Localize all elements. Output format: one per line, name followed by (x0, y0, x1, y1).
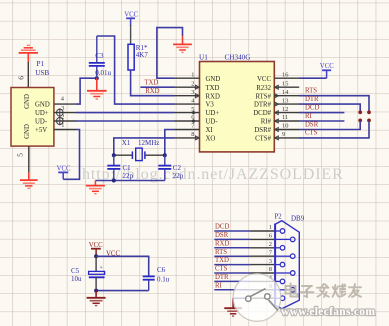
svg-text:TXD: TXD (144, 80, 158, 87)
power port VCC (bottom-left of USB, blue) (57, 166, 71, 180)
P1 inner pin names (24, 94, 50, 139)
glyph zi (301, 286, 314, 297)
glyph dian (286, 284, 298, 297)
glyph fa (317, 284, 329, 297)
resistor R1 (128, 44, 148, 70)
svg-text:DB9: DB9 (291, 214, 305, 222)
ground GND-C5 (dark red earth) (87, 291, 106, 306)
svg-text:CTS: CTS (305, 130, 318, 137)
svg-text:VCC: VCC (89, 242, 103, 249)
wire RI (pin11) (299, 120, 344, 122)
svg-text:R232: R232 (256, 85, 271, 92)
svg-text:VCC: VCC (320, 63, 334, 70)
connector P2 DB9 shell outline (275, 221, 299, 309)
svg-text:1: 1 (269, 224, 272, 231)
svg-text:RXD: RXD (206, 93, 220, 100)
svg-text:3: 3 (269, 258, 272, 265)
svg-text:12MHz: 12MHz (138, 139, 159, 147)
wire USB GND row to C3 node (76, 78, 97, 104)
DB9 pin circles right column (6,7,8,9) (275, 237, 295, 292)
svg-text:CTS#: CTS# (255, 136, 271, 143)
wire +5V to VCC port (63, 130, 79, 180)
glyph you (349, 284, 361, 297)
svg-text:DSR: DSR (215, 232, 229, 239)
svg-text:GND: GND (24, 124, 31, 139)
svg-text:www.elecfans.com: www.elecfans.com (281, 306, 375, 318)
svg-text:RTS#: RTS# (256, 93, 272, 100)
svg-text:RI: RI (215, 282, 223, 289)
svg-text:RXD: RXD (145, 88, 159, 95)
svg-text:RXD: RXD (215, 240, 229, 247)
svg-text:CTS: CTS (215, 266, 228, 273)
U1 left pin numbers (191, 71, 195, 138)
svg-text:GND: GND (206, 76, 221, 83)
svg-text:4K7: 4K7 (136, 51, 149, 59)
wire XO (pin8) to crystal left node (114, 138, 175, 155)
U1 right pin numbers (282, 71, 289, 138)
svg-text:UD-: UD- (206, 119, 219, 126)
svg-text:C2: C2 (173, 164, 182, 172)
wire VCC to R1 (130, 25, 132, 44)
wire CTS (pin9) via outer column (299, 121, 369, 138)
power port VCC (right of U1) (320, 63, 334, 78)
svg-text:UD+: UD+ (35, 110, 49, 117)
junction node crystal-left (112, 153, 116, 157)
svg-text:16: 16 (282, 71, 288, 78)
svg-text:RI#: RI# (261, 119, 272, 126)
svg-text:TXD: TXD (215, 257, 229, 264)
svg-text:3: 3 (191, 89, 194, 96)
capacitor C3 (89, 36, 112, 78)
IC U1 body (200, 62, 275, 152)
svg-text:P1: P1 (37, 60, 45, 68)
capacitor C5 (polarized) (71, 256, 105, 290)
P1 pin numbers 4,3,2,1 (61, 96, 65, 130)
svg-text:TXD: TXD (206, 85, 220, 92)
P1 pin stubs right side (54, 104, 77, 129)
svg-text:12: 12 (282, 106, 288, 113)
svg-text:2: 2 (269, 241, 272, 248)
junction node C5 top (94, 254, 98, 258)
svg-text:0.01u: 0.01u (95, 69, 111, 77)
svg-text:5: 5 (15, 153, 24, 157)
svg-text:XO: XO (206, 136, 216, 143)
junction node C1-rail (112, 179, 116, 183)
svg-text:+5V: +5V (35, 127, 47, 134)
svg-text:UD-: UD- (35, 118, 48, 125)
wires DB9 rows (214, 231, 250, 298)
wire P1 pin5 down (28, 146, 30, 172)
watermark chinese text (drawn glyphs) (286, 284, 362, 298)
svg-text:8: 8 (191, 131, 194, 138)
svg-text:8: 8 (269, 266, 272, 273)
capacitor C1 (107, 155, 133, 180)
P1 pin glyphs on UD wires (57, 109, 64, 116)
wire chip pin1 GND link up-over to ground (157, 28, 183, 79)
svg-text:10u: 10u (71, 275, 82, 283)
svg-text:USB: USB (35, 69, 49, 77)
watermark elecfans logo circle (233, 274, 281, 322)
ground GND-U1 (red earth, top middle) (173, 36, 192, 53)
svg-text:U1: U1 (199, 54, 208, 62)
DB9 pin circles left column (1,2,3,4,5) (275, 229, 285, 301)
DB9 pin numbers (269, 224, 273, 298)
svg-text:DTR: DTR (305, 96, 319, 103)
svg-text:DCD: DCD (305, 105, 319, 112)
watermark logo small rings (246, 296, 251, 301)
svg-text:VCC: VCC (124, 11, 138, 18)
junction node C5 bottom (94, 289, 98, 293)
svg-text:13: 13 (282, 97, 288, 104)
svg-text:GND: GND (24, 94, 31, 109)
svg-text:2: 2 (191, 80, 194, 87)
wire DSR (pin10) via inner column (299, 121, 360, 130)
wire DCD (pin12) (299, 112, 344, 114)
svg-text:6: 6 (269, 233, 272, 240)
crystal X1 symbol (114, 148, 165, 161)
svg-text:22p: 22p (123, 172, 134, 180)
svg-text:DSR#: DSR# (254, 127, 271, 134)
power port VCC (above R1) (124, 11, 138, 26)
svg-text:RTS: RTS (305, 88, 317, 95)
U1 pin edge markers (196, 85, 279, 140)
U1 pin5/pin6 diamond markers (191, 111, 196, 123)
svg-text:RI: RI (305, 113, 313, 120)
svg-text:C6: C6 (157, 266, 166, 274)
svg-text:VCC: VCC (257, 76, 271, 83)
wire VCC (pin16) (299, 77, 327, 79)
wire C3 top over to V3 (chip pin4) (97, 36, 175, 104)
ground GND-DB9 (dark red earth) (224, 298, 242, 316)
svg-text:DTR: DTR (215, 274, 229, 281)
svg-text:22p: 22p (173, 172, 184, 180)
capacitor C2 (158, 155, 184, 180)
svg-text:P2: P2 (275, 214, 283, 221)
ground GND-C3 (red earth below node) (87, 78, 107, 99)
svg-text:GND: GND (35, 102, 50, 109)
wire C6 bottom back to C5 bottom (96, 290, 149, 292)
svg-text:9: 9 (282, 131, 285, 138)
svg-text:X1: X1 (122, 139, 131, 147)
ground GND-top (above P1, flipped red earth) (19, 45, 38, 62)
U1 left pin stubs 1-8 (174, 78, 199, 138)
watermark logo slash upper (250, 289, 266, 297)
watermark logo slash lower (269, 300, 279, 311)
wire R1 bottom to RXD row (131, 70, 175, 96)
svg-text:C1: C1 (123, 164, 132, 172)
U1 right pin stubs 16-9 (274, 78, 299, 138)
glyph shao (333, 284, 346, 296)
connector P1 body (11, 88, 54, 147)
wire P1 pin6 to ground (27, 62, 29, 88)
svg-text:RTS: RTS (215, 249, 227, 256)
wire VCC node to C6 top (96, 256, 149, 276)
U1 right pin names (253, 76, 271, 143)
net labels DB9 left (215, 224, 229, 290)
capacitor C6 (143, 266, 170, 291)
power port VCC (dark red, above C5) (89, 242, 103, 256)
wire UD+ row (76, 112, 174, 114)
ground GND-P1-bottom (red earth) (20, 172, 38, 188)
svg-text:DTR#: DTR# (254, 102, 272, 109)
svg-text:C3: C3 (95, 52, 104, 60)
wire XI (pin7) to crystal right node (165, 130, 175, 156)
svg-text:0.1u: 0.1u (157, 276, 170, 284)
junction node C3/GND (95, 76, 99, 80)
svg-text:11: 11 (282, 114, 288, 121)
svg-text:14: 14 (282, 89, 289, 96)
svg-text:V3: V3 (206, 102, 215, 109)
svg-text:1: 1 (191, 71, 194, 78)
svg-text:DSR: DSR (305, 121, 319, 128)
svg-text:15: 15 (282, 80, 288, 87)
svg-text:10: 10 (282, 123, 288, 130)
svg-text:+: + (99, 264, 103, 271)
junction node crystal-right (163, 153, 167, 157)
junction dots (maroon) (358, 110, 362, 114)
wire UD- row (76, 120, 174, 122)
svg-text:6: 6 (16, 76, 25, 80)
svg-text:CH340G: CH340G (225, 54, 251, 62)
svg-text:DCD#: DCD# (253, 110, 271, 117)
svg-text:VCC: VCC (57, 166, 71, 173)
svg-text:DCD: DCD (215, 224, 229, 231)
U1 left pin names (206, 76, 221, 143)
svg-text:UD+: UD+ (206, 110, 220, 117)
wire ground rail under C1/C2 (95, 180, 164, 182)
svg-text:XI: XI (206, 127, 214, 134)
wire DTR (pin13) down inner column (299, 104, 360, 112)
svg-text:C5: C5 (71, 267, 80, 275)
wire TXD (140, 86, 174, 88)
wire RTS (pin14) down right column (299, 96, 369, 112)
ground GND-XTAL (red earth) (86, 181, 105, 194)
